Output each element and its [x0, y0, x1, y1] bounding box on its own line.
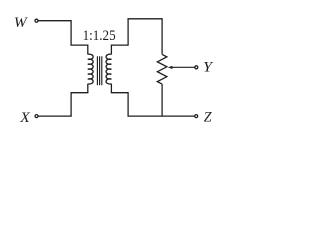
terminal W circle — [35, 19, 38, 22]
wire secondary upper right vertical — [127, 19, 129, 46]
inductor primary winding — [88, 54, 93, 84]
potentiometer wiper arrowhead — [168, 66, 173, 69]
svg-text:W: W — [14, 15, 29, 31]
terminal Y circle — [195, 66, 198, 69]
wire primary top jog — [70, 44, 87, 46]
wire resistor bottom lead — [161, 84, 163, 116]
wire secondary lower right vertical — [127, 92, 129, 116]
resistor R zigzag body — [157, 54, 167, 84]
svg-text:Z: Z — [204, 110, 213, 126]
wire primary bottom jog — [71, 92, 88, 94]
wire from primary lower corner to terminal X — [38, 115, 71, 117]
transformer core line 1 — [96, 56, 98, 85]
wire bottom rail to terminal Z — [127, 115, 194, 117]
wire resistor top lead — [161, 18, 163, 54]
terminal X circle — [35, 115, 38, 118]
wire secondary bottom jog — [111, 92, 128, 94]
wire primary upper left vertical — [70, 20, 72, 45]
svg-text:X: X — [19, 110, 31, 126]
wire primary bottom lead out of winding — [87, 84, 89, 93]
wire primary top lead into winding — [87, 44, 89, 54]
wire secondary bottom lead out of winding — [110, 84, 112, 93]
wire secondary top lead out of winding — [110, 45, 112, 54]
svg-text:1:1.25: 1:1.25 — [83, 28, 116, 44]
wire primary lower left vertical — [70, 92, 72, 116]
terminal Z circle — [195, 115, 198, 118]
inductor secondary winding — [106, 54, 111, 84]
transformer core line 3 — [101, 56, 103, 85]
potentiometer wiper arrow line from terminal Y — [171, 66, 194, 68]
wire secondary top jog — [111, 44, 128, 46]
transformer core line 2 — [99, 56, 101, 85]
wire from terminal W to primary upper corner — [38, 20, 71, 22]
wire top rail to resistor branch — [127, 18, 162, 20]
